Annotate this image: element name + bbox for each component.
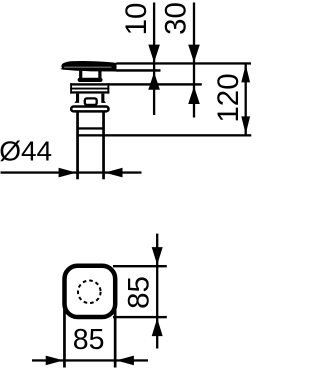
svg-text:Ø44: Ø44 xyxy=(0,135,52,166)
flange bottom edge xyxy=(70,91,109,93)
svg-text:85: 85 xyxy=(73,324,105,356)
svg-text:120: 120 xyxy=(212,73,245,122)
dim line Ø44 (horizontal) xyxy=(1,171,142,173)
arrow up (85 bottom) xyxy=(152,318,163,336)
horiz 85: left extension line xyxy=(63,308,66,368)
svg-text:85: 85 xyxy=(122,276,155,309)
dim line 30 (vertical) xyxy=(193,3,195,118)
svg-text:30: 30 xyxy=(160,2,193,35)
nut right bar with flare xyxy=(101,94,106,103)
flange middle bar xyxy=(70,88,109,90)
side view of pop-up waste valve xyxy=(0,2,251,367)
seal washer capsule (solid) xyxy=(78,78,103,82)
svg-text:10: 10 xyxy=(120,3,153,36)
arrow left (85 right side) xyxy=(116,356,134,366)
arrow down (85 top) xyxy=(152,247,163,265)
arrow left (Ø44 right side) xyxy=(105,168,123,178)
lower collar capsule outline xyxy=(71,107,108,112)
arrow up (30, onto mounting line) xyxy=(188,86,200,104)
horiz 85 dim line xyxy=(32,359,148,361)
nut left bar with flare xyxy=(74,94,79,103)
vert 85 dim line xyxy=(156,234,158,349)
top plate (cap, side view, solid lens shape) xyxy=(60,61,116,72)
center button outline xyxy=(85,98,97,105)
arrow up (10, onto underside) xyxy=(148,72,160,90)
thin white lip line inside plate xyxy=(64,66,111,69)
flange top edge + mounting surface line (30-level), extends right xyxy=(70,83,202,85)
plate underside extension line xyxy=(116,69,160,72)
flange block: left edge xyxy=(70,83,72,93)
arrow right (Ø44 left side) xyxy=(59,168,77,178)
pipe joint line 1 xyxy=(78,127,104,129)
arrow down (10, onto top surface) xyxy=(148,45,160,63)
top surface extension line xyxy=(116,62,251,64)
dashed circle (waste hole) xyxy=(78,281,101,304)
arrow up (120 top) xyxy=(241,65,250,83)
pipe joint line 2 + 120 dimension bottom reference line xyxy=(78,134,252,136)
arrow down (120 bottom) xyxy=(241,116,250,134)
dim line 120 (vertical) xyxy=(245,64,247,136)
arrow down (30, onto top surface) xyxy=(188,45,200,63)
dim line 10 (vertical) xyxy=(153,3,155,116)
tail pipe left wall xyxy=(76,112,79,179)
bottom view: squircle cap outline xyxy=(65,266,116,317)
vert 85: bottom extension line xyxy=(113,316,167,318)
tail pipe right wall xyxy=(102,112,105,179)
flange block: right edge xyxy=(107,83,109,93)
arrow right (85 left side) xyxy=(46,356,64,366)
vert 85: top extension line xyxy=(113,265,167,267)
stem bars under plate xyxy=(79,70,82,78)
horiz 85: right extension line xyxy=(114,310,117,368)
